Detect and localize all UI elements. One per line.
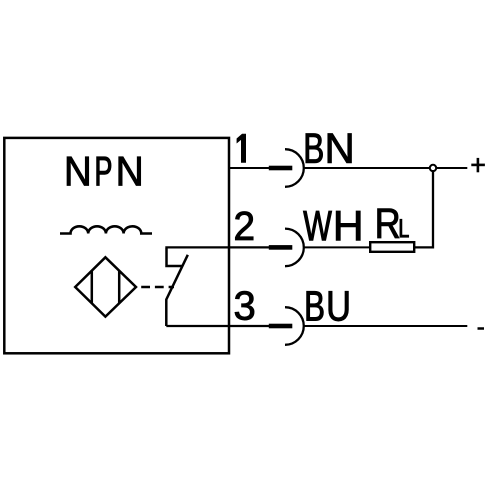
switch S (NO contact) [166, 248, 188, 326]
pin number 1 [237, 134, 246, 162]
plus terminal [471, 158, 485, 172]
plug contact pin 3 (thick bar) [269, 324, 293, 329]
wire WH to load resistor [304, 246, 370, 248]
proximity sensor diamond symbol [75, 257, 136, 316]
label WH [303, 211, 360, 240]
wire BU to minus terminal [304, 325, 468, 327]
label BN [306, 134, 352, 163]
wire BN to junction node [304, 167, 430, 169]
wire pin 1 from box to plug contact [229, 167, 269, 169]
wire pin 3 from switch through box edge to plug contact [166, 325, 269, 327]
load resistor RL body [370, 242, 414, 252]
socket arc pin 1 [285, 149, 304, 187]
socket arc pin 3 [285, 307, 304, 345]
socket arc pin 2 [285, 229, 304, 267]
junction node (open circle) [430, 165, 436, 171]
pin number 2 [235, 212, 253, 240]
pin number 3 [235, 291, 254, 320]
minus terminal [478, 327, 485, 330]
wire pin 2 from switch through box edge to plug contact [165, 246, 269, 248]
label BU [307, 291, 349, 321]
sensor body box [4, 138, 229, 353]
wire node to plus terminal [436, 167, 467, 169]
plug contact pin 1 (thick bar) [269, 166, 293, 171]
label NPN [67, 157, 140, 186]
inductor coil [60, 226, 152, 233]
wire resistor to corner up to node [414, 170, 433, 247]
subscript L of RL [400, 219, 409, 237]
plug contact pin 2 (thick bar) [269, 245, 293, 250]
label R of RL [378, 209, 399, 238]
dashed actuator link [141, 286, 174, 288]
